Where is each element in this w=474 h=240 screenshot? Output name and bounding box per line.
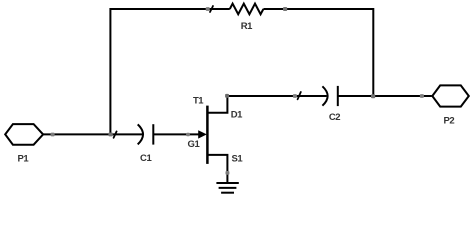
- svg-text:D1: D1: [231, 109, 243, 120]
- svg-text:G1: G1: [188, 139, 201, 150]
- svg-text:R1: R1: [241, 21, 253, 32]
- svg-text:C2: C2: [329, 112, 340, 123]
- svg-text:P2: P2: [443, 115, 454, 126]
- svg-text:S1: S1: [232, 153, 244, 164]
- svg-text:P1: P1: [18, 154, 30, 165]
- svg-text:T1: T1: [193, 95, 204, 106]
- svg-text:C1: C1: [140, 153, 152, 164]
